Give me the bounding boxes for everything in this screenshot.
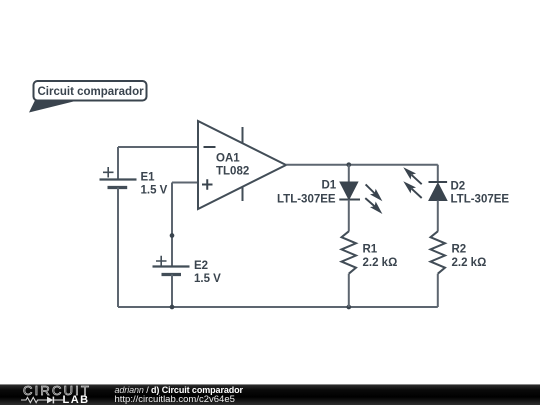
wire: D1 branch top	[348, 165, 350, 182]
svg-text:2.2 kΩ: 2.2 kΩ	[452, 257, 487, 269]
CircuitLab logo wordmark	[23, 385, 91, 397]
footer url	[115, 395, 235, 405]
annotation bubble "Circuit comparador"	[29, 81, 147, 113]
svg-text:R2: R2	[452, 244, 467, 256]
footer bar	[0, 385, 540, 406]
svg-text:E1: E1	[141, 172, 156, 184]
node: junction dot R1/bottom rail	[346, 305, 351, 310]
LED D1 light arrows	[365, 184, 382, 214]
resistor R2	[431, 231, 446, 273]
LED D2 light arrows	[403, 167, 421, 198]
wire: left vertical below E1 to bottom rail	[117, 188, 119, 308]
svg-text:Circuit comparador: Circuit comparador	[38, 86, 145, 98]
wire: vertical from + input down to E2	[171, 183, 173, 267]
node: junction dot above E2	[170, 233, 175, 238]
wire: non-inverting input horizontal	[172, 182, 198, 184]
svg-text:2.2 kΩ: 2.2 kΩ	[363, 257, 398, 269]
wire: below E2 to bottom rail	[171, 275, 173, 308]
footer title	[115, 385, 243, 395]
wire: D1 to R1	[348, 200, 350, 232]
wire: bottom rail	[118, 306, 438, 308]
LED D2	[429, 182, 448, 201]
svg-text:D2: D2	[451, 181, 466, 193]
wire: R2 to bottom rail	[437, 274, 439, 307]
battery E1	[100, 167, 137, 188]
svg-text:E2: E2	[194, 260, 208, 272]
wire: D2 branch vertical from output rail	[437, 165, 439, 182]
wire: D2 to R2	[437, 201, 439, 232]
wire: op-amp output rail	[286, 164, 438, 166]
resistor R1	[342, 231, 357, 273]
op-amp OA1	[198, 121, 286, 209]
wire: R1 to bottom rail	[348, 274, 350, 307]
node: junction dot output/D1	[346, 162, 351, 167]
svg-text:OA1: OA1	[216, 153, 240, 165]
CircuitLab logo mini-circuit	[21, 395, 65, 405]
battery E2	[153, 256, 190, 275]
svg-text:D1: D1	[322, 180, 337, 192]
footer overlay	[0, 385, 540, 406]
svg-text:LTL-307EE: LTL-307EE	[451, 194, 510, 206]
svg-text:R1: R1	[363, 244, 378, 256]
node: junction dot E2/bottom rail	[170, 305, 175, 310]
svg-text:1.5 V: 1.5 V	[141, 185, 168, 197]
wire: left vertical above E1	[117, 147, 119, 179]
svg-text:LTL-307EE: LTL-307EE	[277, 194, 336, 206]
wire: top-left horizontal (E1 top to op-amp inverting input)	[118, 146, 198, 148]
LED D1	[339, 182, 360, 200]
svg-text:TL082: TL082	[216, 166, 249, 178]
svg-text:1.5 V: 1.5 V	[194, 273, 221, 285]
